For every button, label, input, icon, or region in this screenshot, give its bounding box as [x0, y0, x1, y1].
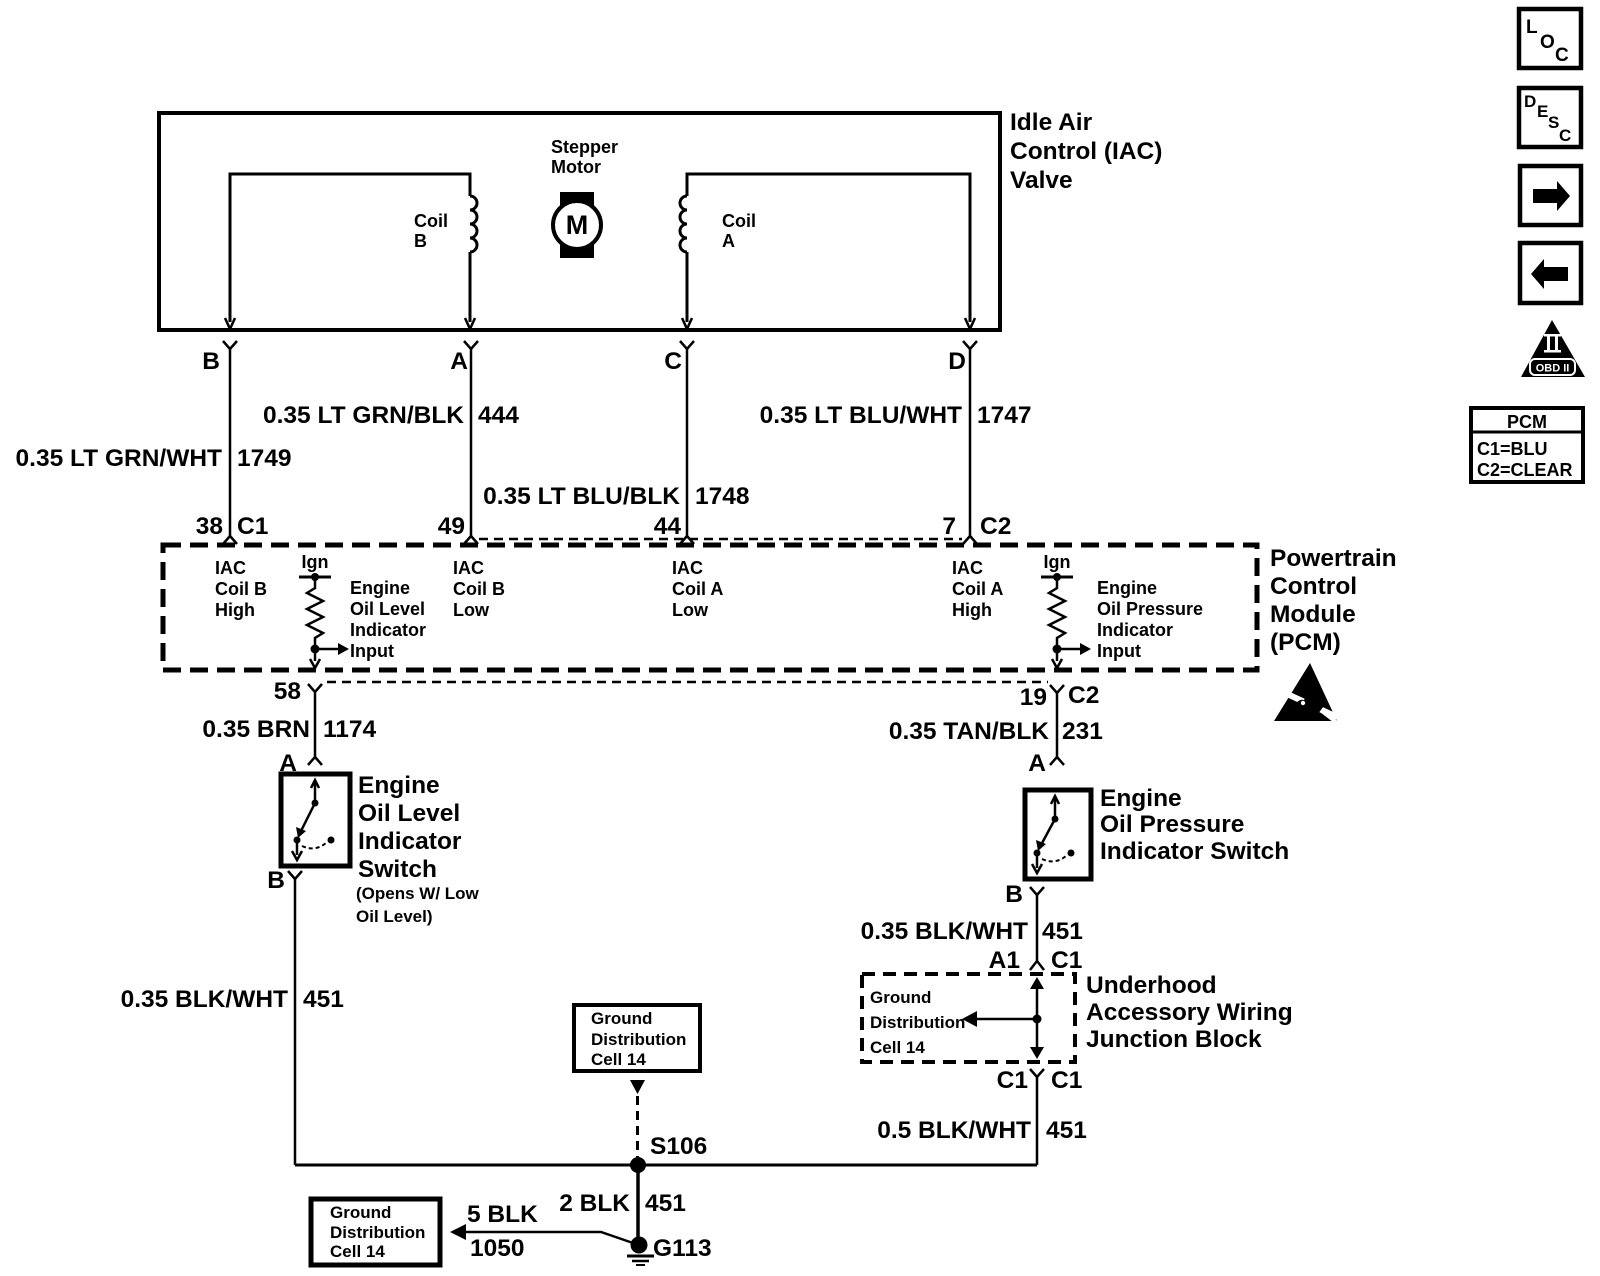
svg-text:C1: C1	[1051, 1067, 1082, 1094]
Ground Distribution Cell 14 reference (bottom left)	[311, 1199, 440, 1265]
svg-text:1050: 1050	[470, 1235, 525, 1262]
wire 0.35 LT BLU/WHT 1747 (D to PCM 7)	[760, 349, 1032, 544]
nav icon LOC	[1519, 9, 1581, 68]
node IAC Coil A High (pin 7)	[952, 558, 1003, 620]
label Engine Oil Pressure Indicator Switch	[1100, 785, 1289, 865]
wire 0.35 TAN/BLK 231 (PCM 19 to switch A)	[889, 693, 1103, 777]
switch S1 pin B connector	[267, 867, 302, 894]
svg-text:IAC: IAC	[453, 558, 484, 578]
svg-text:(PCM): (PCM)	[1270, 629, 1341, 656]
svg-text:1748: 1748	[695, 483, 750, 510]
svg-text:C: C	[1555, 45, 1569, 66]
label Powertrain Control Module (PCM)	[1270, 545, 1397, 656]
svg-text:C2: C2	[980, 513, 1011, 540]
svg-text:B: B	[267, 867, 285, 894]
svg-text:0.35 BLK/WHT: 0.35 BLK/WHT	[121, 986, 288, 1013]
coil A (IAC winding A)	[680, 174, 975, 329]
wire 0.5 BLK/WHT 451 (junction block to splice)	[877, 1077, 1087, 1165]
OBD II symbol	[1521, 320, 1585, 377]
node IAC Coil A Low (pin 44)	[672, 558, 723, 620]
svg-text:0.35 BRN: 0.35 BRN	[202, 716, 310, 743]
wire bottom bus 451	[295, 1164, 1037, 1167]
svg-text:0.5 BLK/WHT: 0.5 BLK/WHT	[877, 1117, 1031, 1144]
coil B (IAC winding B)	[225, 174, 477, 329]
svg-text:Ign: Ign	[1044, 552, 1071, 572]
svg-text:Valve: Valve	[1010, 167, 1073, 194]
nav icon back arrow	[1520, 243, 1581, 303]
wire 0.35 BLK/WHT 451 (switch B to splice)	[121, 879, 344, 1165]
PCM box (Powertrain Control Module)	[163, 539, 1257, 682]
resistor R1 (Ign pull-up, oil level input)	[299, 552, 331, 668]
svg-text:Ground: Ground	[870, 988, 931, 1007]
ESD sensitive symbol	[1274, 663, 1341, 726]
svg-text:Ground: Ground	[591, 1009, 652, 1028]
svg-text:Cell 14: Cell 14	[870, 1038, 925, 1057]
label Underhood Accessory Wiring Junction Block	[1086, 972, 1293, 1053]
wire 0.35 BLK/WHT 451 (switch B to junction block A1)	[861, 895, 1083, 974]
switch S1 Engine Oil Level Indicator Switch	[281, 774, 350, 866]
svg-text:49: 49	[438, 513, 465, 540]
pin 58 connector	[274, 678, 322, 705]
pin 19 C2 connector	[1020, 682, 1100, 711]
svg-text:Indicator: Indicator	[358, 828, 462, 855]
svg-text:Low: Low	[453, 600, 490, 620]
svg-text:Ign: Ign	[302, 552, 329, 572]
Ground Distribution Cell 14 reference (middle)	[574, 1005, 700, 1157]
svg-text:0.35 LT GRN/BLK: 0.35 LT GRN/BLK	[263, 402, 464, 429]
svg-text:Oil Pressure: Oil Pressure	[1100, 811, 1244, 838]
svg-text:A: A	[450, 348, 468, 375]
svg-text:S: S	[1548, 113, 1559, 132]
svg-text:Oil Level: Oil Level	[358, 800, 460, 827]
svg-text:38: 38	[196, 513, 223, 540]
svg-text:Low: Low	[672, 600, 709, 620]
svg-text:451: 451	[645, 1190, 686, 1217]
svg-text:Oil Level: Oil Level	[350, 599, 425, 619]
svg-text:Control: Control	[1270, 573, 1357, 600]
svg-text:0.35 LT BLU/WHT: 0.35 LT BLU/WHT	[760, 402, 962, 429]
svg-text:Oil Pressure: Oil Pressure	[1097, 599, 1203, 619]
svg-text:44: 44	[654, 513, 682, 540]
svg-text:Coil B: Coil B	[215, 579, 267, 599]
svg-text:0.35 LT BLU/BLK: 0.35 LT BLU/BLK	[483, 483, 680, 510]
svg-text:Indicator: Indicator	[1097, 620, 1173, 640]
svg-text:OBD II: OBD II	[1536, 363, 1570, 375]
wire 0.35 LT GRN/WHT 1749 (B to PCM 38)	[16, 349, 292, 544]
svg-text:Coil B: Coil B	[453, 579, 505, 599]
svg-text:Indicator Switch: Indicator Switch	[1100, 838, 1289, 865]
svg-text:D: D	[1524, 92, 1536, 111]
svg-text:Switch: Switch	[358, 856, 437, 883]
svg-text:Cell 14: Cell 14	[330, 1242, 385, 1261]
svg-text:Input: Input	[1097, 641, 1141, 661]
svg-text:High: High	[952, 600, 992, 620]
svg-text:7: 7	[942, 513, 956, 540]
svg-text:Junction Block: Junction Block	[1086, 1026, 1262, 1053]
svg-text:1174: 1174	[323, 716, 377, 743]
svg-text:IAC: IAC	[952, 558, 983, 578]
svg-text:231: 231	[1062, 718, 1103, 745]
svg-text:Engine: Engine	[358, 772, 440, 799]
wire 0.35 LT GRN/BLK 444 (A to PCM 49)	[263, 349, 519, 544]
svg-text:58: 58	[274, 678, 301, 705]
svg-text:Motor: Motor	[551, 157, 601, 177]
svg-text:0.35 TAN/BLK: 0.35 TAN/BLK	[889, 718, 1049, 745]
svg-text:451: 451	[303, 986, 344, 1013]
stepper motor M	[551, 137, 618, 258]
svg-text:A: A	[1028, 750, 1046, 777]
terminal C connector	[664, 341, 694, 375]
svg-text:D: D	[948, 348, 966, 375]
svg-text:B: B	[202, 348, 220, 375]
wire 0.35 BRN 1174 (PCM 58 to switch A)	[202, 692, 376, 777]
PCM connector legend table	[1471, 408, 1583, 482]
svg-text:C2=CLEAR: C2=CLEAR	[1477, 460, 1573, 480]
svg-text:Engine: Engine	[350, 578, 410, 598]
switch S2 Engine Oil Pressure Indicator Switch	[1025, 790, 1091, 879]
svg-text:Coil A: Coil A	[952, 579, 1003, 599]
Underhood Accessory Wiring Junction Block	[862, 974, 1075, 1062]
svg-text:Underhood: Underhood	[1086, 972, 1217, 999]
svg-text:Coil: Coil	[722, 211, 756, 231]
node IAC Coil B High (pin 38)	[215, 558, 267, 620]
svg-text:Idle Air: Idle Air	[1010, 109, 1093, 136]
label Engine Oil Level Indicator Switch	[356, 772, 480, 926]
nav icon forward arrow	[1520, 166, 1581, 225]
svg-text:C2: C2	[1068, 682, 1099, 709]
svg-text:G113: G113	[653, 1235, 712, 1262]
node IAC Coil B Low (pin 49)	[453, 558, 505, 620]
svg-text:Module: Module	[1270, 601, 1356, 628]
ground G113	[627, 1235, 712, 1265]
svg-text:M: M	[566, 210, 589, 240]
svg-text:Coil: Coil	[414, 211, 448, 231]
svg-text:L: L	[1526, 17, 1538, 38]
wire 2 BLK 451 (S106 to G113)	[559, 1165, 686, 1242]
svg-text:C1: C1	[1051, 947, 1082, 974]
terminal A connector	[450, 341, 478, 375]
svg-text:451: 451	[1042, 918, 1083, 945]
svg-text:19: 19	[1020, 684, 1047, 711]
svg-text:2 BLK: 2 BLK	[559, 1190, 630, 1217]
svg-text:B: B	[1005, 881, 1023, 908]
svg-text:IAC: IAC	[215, 558, 246, 578]
terminal D connector	[948, 341, 977, 375]
svg-text:Engine: Engine	[1100, 785, 1182, 812]
node Engine Oil Pressure Indicator Input	[1053, 578, 1204, 661]
svg-text:Stepper: Stepper	[551, 137, 618, 157]
splice S106	[630, 1133, 707, 1173]
svg-text:O: O	[1540, 32, 1555, 53]
terminal B connector	[202, 341, 237, 375]
svg-text:5 BLK: 5 BLK	[467, 1201, 538, 1228]
svg-text:Cell 14: Cell 14	[591, 1050, 646, 1069]
wire 0.35 LT BLU/BLK 1748 (C to PCM 44)	[483, 349, 749, 544]
svg-text:B: B	[414, 231, 427, 251]
svg-text:Engine: Engine	[1097, 578, 1157, 598]
IAC valve box U1	[159, 113, 1000, 330]
svg-text:A1: A1	[989, 947, 1020, 974]
svg-text:Ground: Ground	[330, 1203, 391, 1222]
svg-text:1747: 1747	[977, 402, 1032, 429]
svg-text:Distribution: Distribution	[870, 1013, 965, 1032]
svg-text:Indicator: Indicator	[350, 620, 426, 640]
svg-text:Distribution: Distribution	[591, 1030, 686, 1049]
svg-text:S106: S106	[650, 1133, 707, 1160]
svg-text:C1=BLU: C1=BLU	[1477, 439, 1548, 459]
wire 5 BLK 1050 (to G113)	[450, 1201, 633, 1262]
svg-text:Coil A: Coil A	[672, 579, 723, 599]
svg-text:Input: Input	[350, 641, 394, 661]
switch S2 pin B connector	[1005, 881, 1044, 908]
label Idle Air Control (IAC) Valve	[1010, 109, 1162, 194]
svg-text:Distribution: Distribution	[330, 1223, 425, 1242]
svg-text:Powertrain: Powertrain	[1270, 545, 1397, 572]
svg-text:(Opens W/ Low: (Opens W/ Low	[356, 884, 480, 903]
svg-text:1749: 1749	[237, 445, 292, 472]
svg-text:A: A	[722, 231, 735, 251]
svg-text:IAC: IAC	[672, 558, 703, 578]
svg-text:451: 451	[1046, 1117, 1087, 1144]
svg-text:E: E	[1537, 102, 1548, 121]
svg-text:Oil Level): Oil Level)	[356, 907, 433, 926]
svg-text:C1: C1	[997, 1067, 1028, 1094]
svg-text:C: C	[1559, 126, 1571, 145]
node Engine Oil Level Indicator Input	[311, 578, 427, 661]
svg-text:High: High	[215, 600, 255, 620]
resistor R2 (Ign pull-up, oil pressure input)	[1041, 552, 1073, 668]
nav icon DESC	[1519, 88, 1581, 147]
svg-text:Accessory Wiring: Accessory Wiring	[1086, 999, 1293, 1026]
svg-text:C: C	[664, 348, 682, 375]
svg-text:444: 444	[478, 402, 519, 429]
svg-text:0.35 BLK/WHT: 0.35 BLK/WHT	[861, 918, 1028, 945]
svg-text:PCM: PCM	[1507, 412, 1547, 432]
junction block C1 connector	[997, 1067, 1083, 1094]
svg-text:C1: C1	[237, 513, 268, 540]
svg-text:0.35 LT GRN/WHT: 0.35 LT GRN/WHT	[16, 445, 222, 472]
svg-text:Control (IAC): Control (IAC)	[1010, 138, 1162, 165]
